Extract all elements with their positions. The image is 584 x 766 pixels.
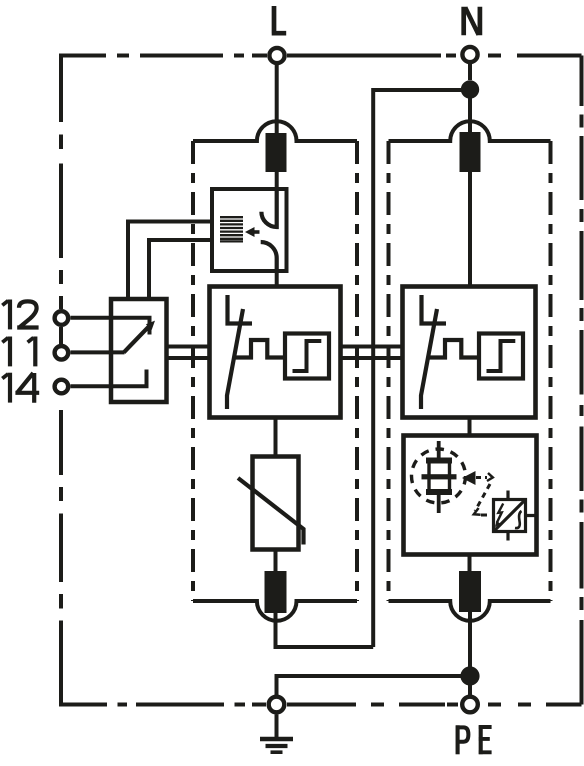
thermal disconnector L bottom (filled) bbox=[265, 571, 287, 613]
right trigger waveform bbox=[429, 340, 480, 358]
actuator upper contact hook bbox=[261, 189, 276, 227]
left spark gap electrode bracket bbox=[228, 295, 253, 324]
GDT dashed circle bbox=[412, 449, 466, 503]
wire N disconnector to right spark gap box bbox=[468, 172, 472, 286]
wire node A riser to node B bbox=[373, 90, 470, 647]
trigger dashed link diagonal bbox=[475, 484, 490, 511]
wire PE node to PE terminal bbox=[468, 685, 472, 695]
GDT trigger icon box bbox=[404, 436, 537, 555]
wire N bottom disconnector to PE node bbox=[468, 612, 472, 667]
enclosure dash-dot border top bbox=[59, 54, 582, 58]
terminal ground circle bbox=[269, 697, 285, 713]
thermal disconnector L top (filled) bbox=[266, 133, 287, 172]
label N bbox=[464, 7, 480, 36]
wire ground terminal link to PE node bbox=[277, 676, 471, 695]
trigger open arrowhead right bbox=[487, 473, 493, 481]
enclosure dash-dot border right bbox=[580, 56, 584, 705]
wire varistor to bottom disconnector bbox=[274, 550, 278, 571]
spark gap box L (left SPD) bbox=[210, 287, 341, 418]
left trigger waveform bbox=[235, 340, 286, 358]
label L bbox=[272, 6, 287, 33]
ground symbol bar 1 bbox=[260, 737, 293, 742]
surge filter wave glyph bbox=[515, 511, 522, 528]
left module boundary bottom edge with terminal bump bbox=[193, 601, 357, 621]
bus wire upper left segment bbox=[167, 345, 210, 349]
GDT bottom electrode bar bbox=[426, 489, 452, 495]
actuator lower contact hook bbox=[261, 242, 277, 271]
label 12 bbox=[2, 300, 38, 330]
left trigger step symbol bbox=[293, 341, 322, 371]
ground symbol bar 3 bbox=[271, 750, 283, 754]
changeover blade arrowhead bbox=[146, 321, 155, 330]
wire changeover box to actuator lower bbox=[149, 240, 212, 299]
terminal N circle bbox=[462, 47, 477, 62]
left trigger circuit box bbox=[285, 334, 329, 379]
GDT tube side walls bbox=[429, 463, 450, 490]
bus wire upper middle segment bbox=[341, 345, 404, 349]
thermal disconnector N top (filled) bbox=[460, 132, 481, 172]
wire terminal 12 stub bbox=[71, 318, 150, 335]
enclosure dash-dot border left bbox=[59, 54, 63, 705]
right spark gap diagonal blade bbox=[421, 309, 437, 409]
label 11 bbox=[2, 337, 35, 367]
right trigger circuit box bbox=[479, 334, 523, 379]
terminal 12 circle bbox=[55, 311, 69, 325]
label PE bbox=[456, 725, 492, 754]
surge filter lightning bolt bbox=[497, 504, 503, 523]
right trigger step symbol bbox=[487, 341, 516, 371]
right module boundary left edge (dashed) bbox=[387, 141, 391, 601]
wire disconnector to actuator box bbox=[275, 172, 279, 189]
varistor diagonal strike bbox=[238, 478, 304, 545]
varistor body bbox=[253, 457, 299, 550]
wire changeover box to actuator upper bbox=[128, 222, 212, 300]
terminal 11 circle bbox=[55, 346, 69, 360]
left spark gap diagonal blade bbox=[227, 309, 243, 409]
actuator arrow bbox=[245, 227, 260, 237]
wire trigger icon box to bottom disconnector bbox=[468, 555, 472, 571]
spark gap box N (right SPD) bbox=[403, 287, 536, 418]
right spark gap electrode bracket bbox=[422, 295, 447, 324]
actuator heater hatched block bbox=[220, 217, 243, 241]
left module boundary top edge with terminal bump bbox=[193, 121, 357, 141]
wire actuator box to spark gap box bbox=[275, 271, 279, 286]
terminal L circle bbox=[269, 48, 284, 63]
node PE junction dot bbox=[460, 666, 479, 685]
wire right spark gap box to trigger icon box bbox=[468, 417, 472, 435]
bus wire lower middle segment bbox=[341, 356, 404, 360]
right module boundary right edge (dashed) bbox=[549, 141, 553, 601]
wire N junction to top disconnector bbox=[468, 89, 472, 132]
GDT trigger arrow (filled, pointing left at GDT) bbox=[462, 471, 476, 485]
ground symbol bar 2 bbox=[266, 744, 288, 748]
ground symbol stem bbox=[275, 715, 279, 738]
GDT top electrode bar bbox=[426, 458, 452, 464]
enclosure dash-dot border bottom bbox=[59, 703, 582, 707]
wire N terminal to junction bbox=[468, 64, 472, 80]
thermal actuator box bbox=[212, 189, 287, 271]
trigger dashed link to filter box bbox=[481, 514, 491, 517]
thermal disconnector N bottom (filled) bbox=[459, 571, 481, 612]
wire terminal 11 stub bbox=[71, 350, 125, 354]
GDT middle electrode bar bbox=[422, 474, 457, 479]
GDT top lead bbox=[437, 441, 441, 458]
GDT bottom lead bbox=[437, 494, 441, 513]
changeover contact blade bbox=[124, 326, 149, 352]
terminal PE circle bbox=[462, 697, 478, 713]
trigger dashed link horizontal bbox=[476, 476, 487, 479]
left module boundary left edge (dashed) bbox=[191, 141, 195, 601]
label 14 bbox=[2, 373, 39, 403]
wire spark gap box to varistor bbox=[274, 418, 278, 456]
trigger open arrowhead lower bbox=[474, 508, 481, 515]
wire L bottom disconnector to node A bbox=[276, 613, 374, 647]
terminal 14 circle bbox=[55, 380, 69, 394]
right module boundary bottom edge with terminal bump bbox=[389, 601, 551, 621]
right module boundary top edge with terminal bump bbox=[389, 121, 551, 141]
node B junction dot at N bbox=[461, 80, 479, 98]
bus wire lower left segment bbox=[167, 356, 210, 360]
changeover contact box 11-12-14 bbox=[111, 299, 167, 402]
left module boundary right edge (dashed) bbox=[355, 141, 359, 601]
wire terminal 14 stub bbox=[71, 370, 147, 387]
surge filter box bbox=[494, 491, 536, 541]
wire L terminal to thermal disconnector bbox=[275, 65, 279, 133]
